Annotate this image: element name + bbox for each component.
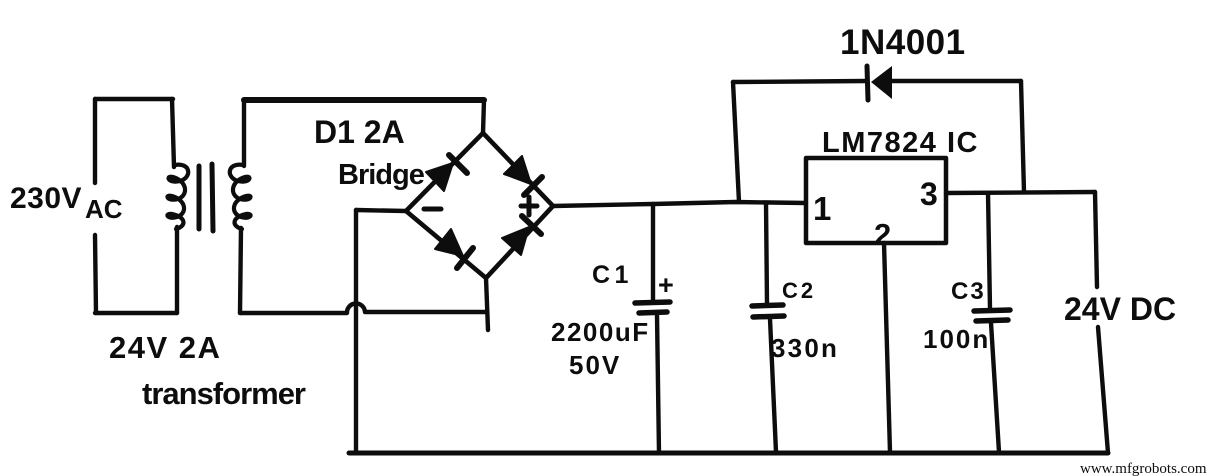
diode bridge top-right arm diode bbox=[504, 156, 542, 195]
wire 1N4001 branch top horizontal right bbox=[892, 79, 1021, 83]
wire secondary left vertical lower bbox=[240, 228, 241, 313]
svg-text:transformer: transformer bbox=[142, 376, 306, 411]
wire secondary bottom to bridge with hump over minus wire bbox=[240, 303, 487, 313]
transformer core line left bbox=[197, 166, 202, 229]
bridge plus sign bbox=[521, 197, 537, 215]
capacitor C3 plates bbox=[974, 310, 1010, 321]
svg-text:C1: C1 bbox=[592, 261, 633, 289]
diode bridge top-left arm diode bbox=[426, 155, 467, 191]
bridge minus sign bbox=[424, 207, 441, 212]
wire bridge top vertex stub bbox=[483, 100, 484, 133]
wire primary right vertical upper bbox=[172, 99, 174, 167]
svg-text:D1 2A: D1 2A bbox=[314, 114, 405, 150]
capacitor C1 plates bbox=[635, 302, 670, 313]
IC U1 LM7824 box bbox=[806, 158, 946, 243]
svg-text:C3: C3 bbox=[951, 278, 986, 305]
capacitor C3 top lead bbox=[988, 193, 990, 309]
wire primary right vertical lower bbox=[175, 227, 179, 313]
svg-text:330n: 330n bbox=[771, 333, 839, 363]
wire main positive rail from bridge to IC pin1 bbox=[553, 202, 806, 206]
capacitor C1 top lead bbox=[651, 204, 655, 301]
wire primary loop bottom bbox=[95, 311, 177, 315]
wire bottom ground rail bbox=[349, 451, 1108, 456]
wire 1N4001 branch top horizontal left bbox=[733, 81, 866, 82]
diode D2 1N4001 cathode bar bbox=[867, 66, 868, 100]
capacitor C1 bottom lead bbox=[657, 315, 659, 453]
diode D2 1N4001 triangle bbox=[871, 66, 892, 99]
wire 1N4001 branch left vertical bbox=[733, 82, 739, 202]
transformer T1 secondary winding bbox=[230, 165, 251, 229]
wire secondary top to bridge bbox=[244, 97, 484, 103]
svg-text:50V: 50V bbox=[569, 350, 621, 380]
svg-text:3: 3 bbox=[920, 176, 938, 212]
wire IC pin2 to bottom rail bbox=[884, 243, 890, 452]
wire IC pin3 output bbox=[946, 192, 1095, 193]
capacitor C2 plates bbox=[752, 305, 784, 317]
svg-text:1N4001: 1N4001 bbox=[840, 23, 966, 62]
wire bridge bottom vertex stub bbox=[486, 278, 488, 330]
wire output right vertical lower bbox=[1098, 327, 1108, 453]
transformer T1 primary winding bbox=[167, 165, 188, 229]
svg-text:2: 2 bbox=[874, 217, 891, 252]
capacitor C2 top lead bbox=[766, 203, 767, 304]
diode bridge bottom-right arm diode bbox=[502, 216, 541, 255]
bridge rectifier D1 diamond bbox=[406, 133, 553, 278]
wire primary loop left vertical (lower) bbox=[95, 235, 96, 313]
diode bridge bottom-left arm diode bbox=[435, 229, 473, 268]
wire secondary left vertical upper bbox=[242, 100, 246, 166]
capacitor C3 bottom lead bbox=[991, 323, 999, 452]
svg-text:LM7824 IC: LM7824 IC bbox=[822, 127, 979, 159]
svg-text:AC: AC bbox=[85, 194, 123, 224]
svg-text:2200uF: 2200uF bbox=[551, 317, 650, 347]
svg-text:230V: 230V bbox=[10, 182, 82, 215]
svg-text:C2: C2 bbox=[782, 278, 816, 303]
capacitor C2 bottom lead bbox=[770, 319, 776, 452]
wire minus vertical down to bottom rail bbox=[354, 210, 358, 453]
wire output right vertical upper bbox=[1095, 192, 1097, 287]
svg-text:+: + bbox=[658, 270, 674, 300]
transformer core line right bbox=[212, 164, 213, 231]
wire primary loop left vertical (upper) bbox=[93, 99, 97, 183]
wire primary loop top bbox=[95, 97, 173, 101]
svg-text:24V DC: 24V DC bbox=[1064, 291, 1176, 327]
wire 1N4001 branch right vertical bbox=[1021, 81, 1024, 192]
svg-text:100n: 100n bbox=[923, 324, 990, 354]
svg-text:24V 2A: 24V 2A bbox=[109, 330, 221, 365]
svg-text:1: 1 bbox=[813, 190, 831, 227]
svg-text:www.mfgrobots.com: www.mfgrobots.com bbox=[1080, 461, 1207, 476]
wire bridge minus output to left bbox=[356, 210, 406, 211]
svg-text:Bridge: Bridge bbox=[338, 159, 425, 191]
